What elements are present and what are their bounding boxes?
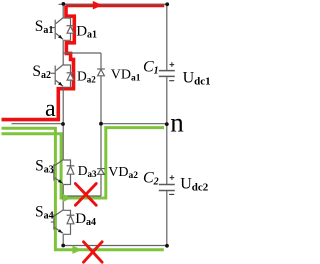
diode Da2 (anti-parallel)	[67, 73, 75, 80]
svg-text:Sa3: Sa3	[35, 158, 54, 176]
capacitor C2	[159, 185, 175, 191]
polarity signs C2	[169, 175, 174, 194]
wire clamp branch lower (n line to m2)	[100, 124, 102, 196]
wire clamp branch upper (m1 to n line)	[100, 53, 102, 124]
fault mark X2 (on bottom rail path)	[84, 242, 103, 262]
wire midpoint m2 (Sa3/Sa4 junction to clamp branch)	[63, 195, 101, 197]
diode VDa1 (clamping)	[97, 69, 105, 76]
node bottom-left junction	[61, 244, 65, 248]
node top-left junction	[62, 2, 66, 6]
wire right DC rail segments	[166, 4, 168, 245]
svg-text:C2: C2	[143, 169, 159, 187]
svg-text:Da3: Da3	[78, 163, 97, 179]
svg-text:n: n	[170, 107, 184, 137]
svg-text:VDa2: VDa2	[108, 165, 138, 181]
svg-text:Udc1: Udc1	[183, 70, 211, 88]
diode Da4 (anti-parallel)	[67, 215, 75, 224]
svg-text:Da1: Da1	[76, 23, 97, 40]
svg-text:a: a	[45, 96, 56, 122]
transistor Sa2 (IGBT symbol)	[51, 65, 63, 87]
node a junction	[61, 122, 65, 126]
wire midpoint m1 (Sa1/Sa2 junction to clamp branch)	[63, 52, 101, 54]
wire anti-parallel loop of Sa4	[63, 210, 70, 234]
node n junction	[165, 122, 169, 126]
wire anti-parallel loop of Sa2	[63, 65, 70, 87]
wire neutral line to n	[101, 123, 167, 125]
red arrow on top rail	[93, 1, 103, 10]
svg-text:C1: C1	[143, 59, 159, 77]
wire top rail	[59, 3, 167, 5]
diode Da1 (anti-parallel)	[67, 26, 75, 34]
diode Da3 (anti-parallel)	[67, 166, 75, 174]
wire anti-parallel loop of Sa1	[63, 18, 70, 40]
transistor Sa4 (IGBT symbol)	[51, 210, 63, 234]
polarity signs C1	[169, 62, 174, 80]
node bottom-right junction	[165, 244, 169, 248]
svg-text:Sa1: Sa1	[35, 18, 54, 36]
green arrow on midpoint line	[63, 194, 71, 202]
svg-text:Da2: Da2	[77, 69, 96, 85]
diode VDa2 (clamping)	[97, 169, 105, 175]
wire main leg vertical segments	[62, 4, 64, 245]
green arrow on bottom line	[72, 246, 82, 254]
transistor Sa1 (IGBT symbol)	[51, 18, 63, 40]
transistor Sa3 (IGBT symbol)	[51, 160, 63, 184]
wire bottom rail	[63, 245, 167, 247]
node top-right junction	[165, 2, 169, 6]
capacitor C1	[159, 71, 175, 77]
svg-text:Da4: Da4	[75, 211, 96, 228]
fault mark X1 (on m2 midpoint line)	[75, 184, 96, 206]
svg-text:Udc2: Udc2	[180, 176, 209, 194]
node clamp/neutral junction	[99, 122, 103, 126]
svg-text:VDa1: VDa1	[111, 67, 141, 83]
red highlighted current path (top rail + through Sa1/Sa2 diodes to node a)	[2, 5, 165, 119]
green highlighted path B (node a down through Sa3 to midpoint, up clamp branch to n)	[2, 128, 165, 198]
svg-text:Sa2: Sa2	[32, 63, 51, 81]
wire phase output stub at node a	[12, 123, 64, 125]
wire anti-parallel loop of Sa3	[63, 160, 70, 185]
green highlighted path A (node a down left side to bottom rail)	[2, 128, 164, 249]
svg-text:Sa4: Sa4	[35, 204, 54, 222]
